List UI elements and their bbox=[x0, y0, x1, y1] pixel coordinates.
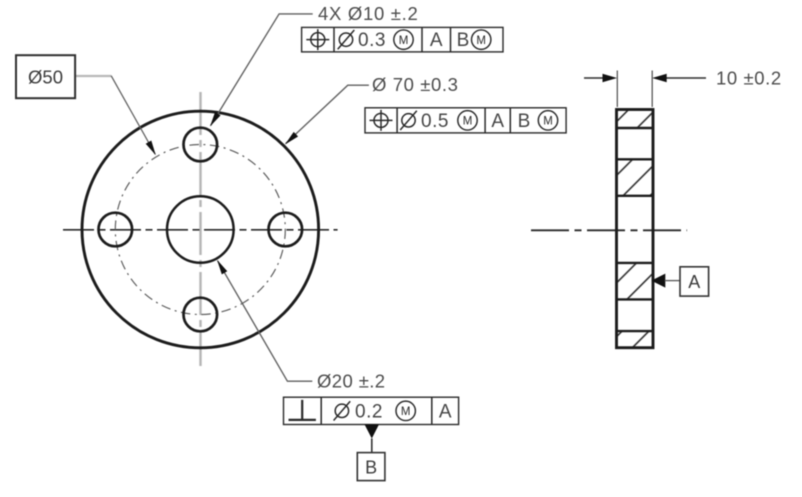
svg-text:4X Ø10 ±.2: 4X Ø10 ±.2 bbox=[318, 3, 418, 24]
svg-text:M: M bbox=[401, 406, 411, 418]
svg-text:A: A bbox=[430, 30, 443, 51]
svg-text:A: A bbox=[491, 111, 504, 132]
svg-text:M: M bbox=[399, 35, 409, 47]
svg-text:A: A bbox=[688, 272, 700, 292]
svg-text:0.5: 0.5 bbox=[421, 111, 449, 132]
svg-text:M: M bbox=[476, 35, 486, 47]
svg-text:0.2: 0.2 bbox=[355, 402, 383, 423]
svg-text:Ø20 ±.2: Ø20 ±.2 bbox=[317, 371, 386, 392]
svg-text:B: B bbox=[365, 457, 377, 477]
svg-text:0.3: 0.3 bbox=[358, 30, 386, 51]
svg-text:Ø 70 ±0.3: Ø 70 ±0.3 bbox=[372, 74, 459, 95]
svg-text:A: A bbox=[439, 402, 452, 423]
svg-text:M: M bbox=[543, 116, 553, 128]
svg-text:Ø50: Ø50 bbox=[28, 66, 63, 87]
svg-text:B: B bbox=[518, 111, 531, 132]
svg-text:M: M bbox=[463, 116, 473, 128]
svg-text:10 ±0.2: 10 ±0.2 bbox=[716, 68, 782, 89]
svg-text:B: B bbox=[457, 30, 470, 51]
